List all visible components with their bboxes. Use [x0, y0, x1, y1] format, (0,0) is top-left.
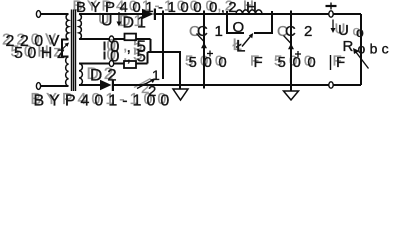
svg-text:500: 500	[189, 54, 234, 71]
svg-text:obc: obc	[358, 41, 393, 57]
svg-text:50Hz: 50Hz	[14, 45, 69, 62]
svg-text:2: 2	[148, 83, 156, 100]
svg-text:0: 0	[110, 46, 119, 65]
svg-text:5: 5	[137, 46, 146, 65]
svg-text:U: U	[335, 21, 346, 38]
svg-text:R: R	[343, 38, 354, 55]
svg-text:D2: D2	[90, 66, 122, 85]
svg-text:2: 2	[304, 23, 312, 40]
svg-text:U: U	[98, 11, 110, 28]
svg-text:H: H	[246, 0, 257, 16]
svg-text:D1: D1	[123, 15, 149, 32]
svg-text:0,2: 0,2	[209, 0, 240, 16]
svg-text:1: 1	[152, 67, 160, 83]
svg-text:C: C	[285, 23, 296, 40]
svg-text:Ł: Ł	[236, 37, 245, 56]
svg-text:C: C	[197, 23, 208, 40]
svg-text:500: 500	[278, 54, 323, 71]
svg-text:O: O	[233, 19, 245, 36]
svg-text:o: o	[353, 23, 361, 39]
svg-text:F: F	[336, 54, 345, 71]
svg-text:1: 1	[215, 23, 223, 40]
svg-text:F: F	[254, 54, 263, 71]
svg-text:,: ,	[127, 48, 131, 65]
